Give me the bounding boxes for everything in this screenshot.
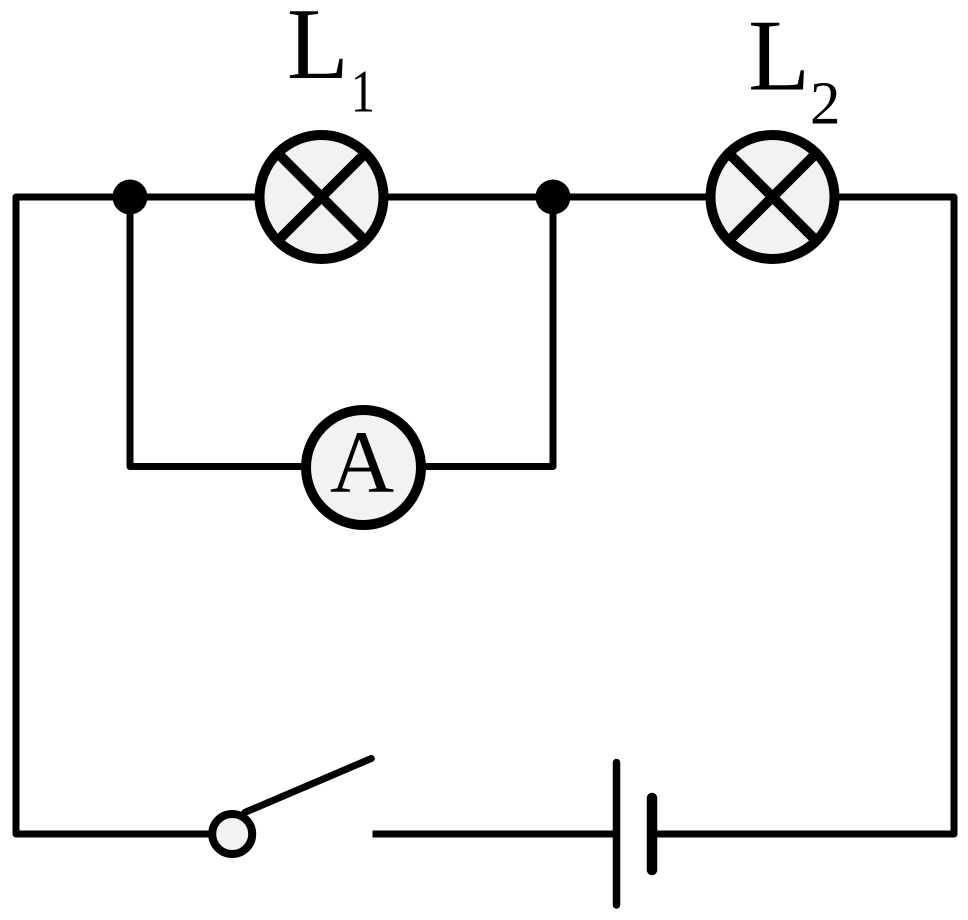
switch S1 <box>212 759 371 855</box>
battery B1 long plate (positive) <box>613 763 621 906</box>
svg-text:1: 1 <box>351 57 375 124</box>
svg-text:L: L <box>748 0 810 111</box>
lamp L1 <box>260 135 384 259</box>
svg-text:A: A <box>330 414 394 512</box>
ammeter A1 <box>306 410 421 525</box>
wire: outer loop (left, top, right sides and bottom stubs to switch and battery) <box>16 197 954 834</box>
node B junction dot <box>536 180 571 215</box>
svg-text:L: L <box>287 0 349 100</box>
label L2 <box>748 0 840 137</box>
wire: bottom segment between switch and battery long plate <box>373 831 615 838</box>
svg-text:2: 2 <box>810 70 841 137</box>
lamp L2 <box>711 135 835 259</box>
node A junction dot <box>113 180 148 215</box>
wire: ammeter branch (down from node A, across, up to node B) <box>130 197 553 467</box>
battery B1 short plate (negative) <box>647 798 658 870</box>
label L1 <box>287 0 375 125</box>
